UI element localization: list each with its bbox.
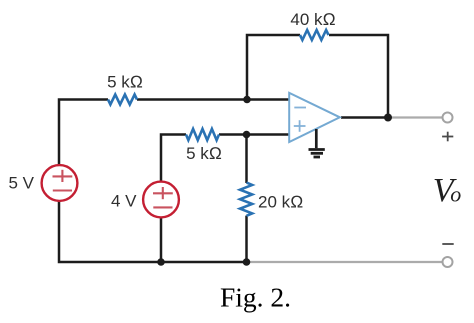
svg-text:5 V: 5 V (8, 174, 34, 193)
svg-text:4 V: 4 V (111, 191, 137, 210)
svg-text:5 kΩ: 5 kΩ (186, 144, 222, 163)
svg-text:Fig. 2.: Fig. 2. (220, 282, 291, 313)
svg-text:o: o (450, 182, 461, 207)
svg-text:5 kΩ: 5 kΩ (107, 73, 143, 92)
svg-text:40 kΩ: 40 kΩ (290, 10, 335, 29)
svg-text:20 kΩ: 20 kΩ (258, 193, 303, 212)
